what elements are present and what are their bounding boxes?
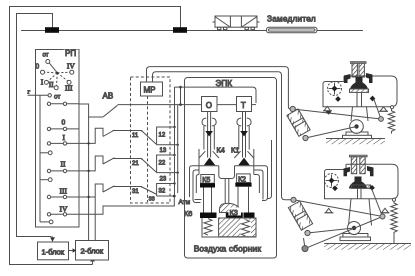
label 13 <box>160 148 167 154</box>
lower mech spring joint circle <box>392 198 395 201</box>
contact K-III blade <box>103 186 115 192</box>
svg-text:МР: МР <box>144 86 156 95</box>
lower mech long link A-C <box>294 200 383 217</box>
wire 23 to bus <box>161 171 179 173</box>
arrow into 1-blok top <box>50 237 55 242</box>
upper mech valve bell <box>350 77 369 92</box>
wire from track contact 2 to block 2 (outer loop) <box>10 7 181 265</box>
upper mech tilted cylinder <box>287 109 310 136</box>
wire T return top <box>175 87 257 103</box>
svg-text:IV: IV <box>60 205 68 214</box>
upper mech long link A-C <box>293 109 381 119</box>
contact group 21 blade <box>142 159 156 172</box>
rotary position circle ot <box>46 60 50 64</box>
valve T seat shelf <box>235 165 254 167</box>
label 23 <box>160 177 167 183</box>
svg-text:III: III <box>65 84 73 93</box>
retarder beam on rail <box>267 27 318 33</box>
svg-text:32: 32 <box>159 189 166 195</box>
svg-text:Воздуха сборник: Воздуха сборник <box>194 244 262 254</box>
lower mech joint C <box>380 214 385 219</box>
track contact shoe 1 <box>45 27 59 33</box>
lower mech joint B <box>305 230 310 235</box>
svg-text:1-блок: 1-блок <box>42 248 65 257</box>
svg-text:от: от <box>54 93 60 100</box>
pipe right hook 3 <box>254 175 260 194</box>
wire from track contact 1 to block 1 (inner loop) <box>17 14 53 237</box>
contact group 31 input wire <box>132 187 142 196</box>
upper mech joint B <box>303 135 308 140</box>
link wire T-return to AV line <box>179 86 182 105</box>
lower mech link B-pivot <box>308 228 355 233</box>
valve seat bar right <box>244 213 255 218</box>
label g <box>28 89 31 96</box>
upper mech dashed circle with cross <box>328 82 342 96</box>
junction dot jog bus b <box>87 142 89 144</box>
valve T coil brackets <box>237 118 251 126</box>
block 1 box <box>38 242 69 260</box>
wire 13 to bus <box>161 144 179 146</box>
arrow block1 to block2 <box>68 248 76 253</box>
upper mech bell stem <box>357 93 362 107</box>
label I row <box>63 133 66 142</box>
left bus terminal circle b <box>40 178 52 182</box>
label Zamedlitel <box>267 14 316 23</box>
svg-text:г: г <box>28 89 31 96</box>
contact K-II blade <box>103 158 115 164</box>
walls K5 to K6 <box>204 188 212 213</box>
contact pair row II <box>47 169 79 172</box>
label Atm <box>179 199 191 206</box>
relay MR box <box>141 82 163 96</box>
rotary position circle IV <box>70 70 74 74</box>
upper mech ground <box>326 139 385 145</box>
svg-text:Т: Т <box>241 101 246 110</box>
junction dot jog bus c <box>87 196 89 198</box>
wire g into RP <box>28 94 49 96</box>
svg-text:К2: К2 <box>238 176 246 183</box>
valve solenoid O box <box>202 97 218 112</box>
contact K-II output wire <box>113 158 142 160</box>
lower mech tilted cylinder <box>288 201 312 230</box>
valve T stem <box>243 112 246 158</box>
left bus terminal circle a <box>40 151 52 155</box>
spring right window <box>241 220 252 237</box>
pipe left hook 3 <box>196 175 199 194</box>
terminal circle on g wire <box>48 94 51 97</box>
contact 32-33 bracket <box>157 184 161 197</box>
svg-text:33: 33 <box>149 196 155 202</box>
valve seat bar K6 <box>200 213 217 219</box>
rotary label ot <box>43 52 49 58</box>
valve O stem <box>208 112 211 158</box>
contact group 21 input wire <box>132 159 142 168</box>
rotary label III <box>65 84 73 93</box>
MR pipe to upper mechanism <box>147 67 291 109</box>
wire 33 to bus <box>157 195 176 198</box>
upper mech pedestal <box>343 132 372 139</box>
rotary label 0 <box>35 61 39 70</box>
labels K4 K1 <box>217 146 240 155</box>
contact K-III jog wire <box>79 184 103 197</box>
upper mech link C-pin <box>374 100 381 120</box>
RP left bus <box>39 95 41 222</box>
bus wire left of EPK a <box>174 87 176 196</box>
label III row <box>60 187 68 196</box>
pipe right hook 2 <box>254 170 263 200</box>
switch AV jog wire <box>79 104 103 117</box>
pipe left hook 2 <box>193 170 199 203</box>
upper mech pin diamond left <box>335 96 341 102</box>
rotary switch arm <box>49 63 58 74</box>
junction dot on AV line <box>179 103 182 106</box>
relay panel RP box <box>36 50 80 228</box>
upper mech joint C <box>379 117 384 122</box>
block 2 box <box>76 241 109 261</box>
svg-text:11: 11 <box>132 133 139 139</box>
svg-text:0: 0 <box>62 118 66 127</box>
lower mech link C-pin <box>372 189 383 217</box>
lower mech valve bell <box>349 177 371 189</box>
valve O coil brackets <box>202 118 216 126</box>
rotary label IV <box>67 61 75 70</box>
valve T housing <box>239 126 249 150</box>
valve K5 box <box>201 175 215 185</box>
lower mech pedestal <box>340 234 371 241</box>
svg-text:13: 13 <box>160 148 167 154</box>
chamber walls bottom <box>202 218 256 237</box>
upper mech pivot circle <box>350 120 364 134</box>
wire 22 to bus <box>161 154 176 156</box>
contact K-I jog wire <box>79 128 103 143</box>
EPK box <box>185 78 277 259</box>
chamber outer wall right <box>253 149 255 175</box>
contact 22-23 bracket <box>157 155 161 173</box>
label K6 <box>184 209 192 218</box>
rotary switch dashed spokes <box>45 72 70 86</box>
contact pair row ot <box>47 102 79 105</box>
piston K3 body hatched <box>219 218 256 237</box>
valve solenoid T box <box>237 97 252 112</box>
valve K2 box <box>237 174 251 184</box>
contact 12-13 bracket <box>157 127 161 145</box>
switch AV blade <box>103 105 118 117</box>
svg-text:II: II <box>49 80 54 89</box>
upper mech cylinder walls <box>351 62 367 77</box>
label ot row <box>54 93 60 100</box>
switch AV output wire to valve O <box>118 104 202 106</box>
wire row IV to bus <box>79 196 174 214</box>
wire T to right riser <box>252 104 257 106</box>
contact pair row I <box>47 142 79 145</box>
left bus terminal circle c <box>40 220 53 224</box>
upper mech clamp right <box>366 73 373 83</box>
piston K3 dome hatched <box>220 203 241 212</box>
contact group 11 input wire <box>132 131 142 140</box>
label RP <box>64 49 79 58</box>
svg-text:21: 21 <box>132 161 139 167</box>
center channel U <box>219 166 235 179</box>
pipe right edge riser <box>267 140 272 199</box>
label 33 <box>149 196 155 202</box>
MR mechanical link dashed <box>147 96 149 202</box>
walls K2 down <box>238 187 249 213</box>
lower mech joint A <box>291 197 296 202</box>
pipe right hook 1 <box>254 166 268 201</box>
svg-text:О: О <box>206 101 212 110</box>
svg-text:31: 31 <box>132 189 139 195</box>
contact K-II jog wire <box>79 156 103 171</box>
lower mech bell stem <box>358 189 362 199</box>
contact K-I blade <box>103 130 115 137</box>
lower mech clamp right <box>367 166 374 176</box>
valve T armature triangle <box>240 131 248 137</box>
atmosphere port symbol <box>195 200 202 203</box>
lower mech pivot circle <box>348 222 361 235</box>
contact pair row IV <box>47 213 79 216</box>
label 22 <box>159 161 166 167</box>
lower retarder mechanism body <box>325 164 399 199</box>
bus wire left of EPK b <box>177 105 179 193</box>
contact K-I output wire <box>113 130 142 132</box>
MR pipe to lower mechanism <box>153 72 291 200</box>
arrow into 2-blok bottom <box>90 257 95 264</box>
lower mech clamp left <box>344 167 351 176</box>
rail line <box>21 30 363 32</box>
dashed enclosure MR relay <box>131 77 171 203</box>
lower mech long lever D-C <box>305 217 383 249</box>
upper retarder mechanism body <box>323 76 397 107</box>
contact group 31 blade <box>142 187 156 194</box>
valve T main plug triangle <box>234 151 254 165</box>
center pipe to K3 <box>225 179 229 204</box>
rotary label II <box>49 80 54 89</box>
wagon <box>213 16 260 30</box>
lower mech spring <box>391 201 397 243</box>
label IV row <box>60 205 68 214</box>
svg-text:Атм: Атм <box>179 199 191 206</box>
svg-text:23: 23 <box>160 177 167 183</box>
label AV <box>103 92 114 101</box>
junction dot jog bus a <box>87 170 89 172</box>
valve O housing <box>204 126 214 150</box>
upper mech spring <box>388 109 394 134</box>
label K3 <box>229 208 242 218</box>
lower mech rod to D <box>304 238 306 249</box>
svg-text:К1: К1 <box>231 146 239 155</box>
lower mech rod end joint D <box>302 246 308 252</box>
track contact shoe 2 <box>173 27 187 33</box>
upper mech spring joint circle <box>390 106 393 109</box>
rotary position circle II <box>54 86 58 90</box>
lower mech cylinder walls <box>350 155 368 173</box>
upper mech pin diamond right <box>370 96 376 102</box>
svg-text:К6: К6 <box>184 209 192 218</box>
spring right <box>242 220 250 237</box>
label 32 <box>159 189 166 195</box>
contact group 11 blade <box>142 131 156 144</box>
svg-text:2-блок: 2-блок <box>81 247 104 256</box>
label EPK <box>216 79 233 88</box>
svg-text:IV: IV <box>67 61 75 70</box>
svg-text:12: 12 <box>159 133 166 139</box>
svg-text:АВ: АВ <box>103 92 114 101</box>
wire 32 to bus <box>161 182 176 184</box>
pipe left hook 1 <box>190 166 200 197</box>
lower mech pin diamond left <box>332 185 338 191</box>
svg-text:Замедлител: Замедлител <box>267 14 316 23</box>
svg-text:III: III <box>60 187 68 196</box>
upper mech support triangle right <box>379 107 388 112</box>
upper mech support triangle left <box>323 106 332 111</box>
rotary position circle I <box>44 80 48 84</box>
wire 12 to bus <box>161 126 176 128</box>
label 12 <box>159 133 166 139</box>
rotary label I <box>41 77 44 86</box>
lower mech ground <box>324 244 411 250</box>
wire O to T <box>217 104 237 106</box>
spring left <box>204 219 212 236</box>
upper mech clamp left <box>344 74 351 83</box>
wire jog bus to block2 <box>94 197 96 241</box>
valve K2 seat bar <box>235 183 251 187</box>
label 0 row <box>62 118 66 127</box>
valve O main plug triangle <box>199 151 219 165</box>
svg-text:РП: РП <box>65 49 76 58</box>
contact pair row III <box>47 195 79 198</box>
upper mech link B-pivot <box>306 127 357 139</box>
upper mech column <box>351 107 368 121</box>
svg-text:22: 22 <box>159 161 166 167</box>
svg-text:К5: К5 <box>202 177 210 184</box>
valve seat bar center <box>226 213 243 219</box>
lower mech column <box>349 199 372 226</box>
rotary position circle III <box>67 80 71 84</box>
valve O armature triangle <box>205 131 213 137</box>
lower mech support triangle right <box>381 208 390 213</box>
lower mech support triangle left <box>325 208 334 213</box>
svg-text:II: II <box>61 160 66 169</box>
svg-text:0: 0 <box>35 61 39 70</box>
valve O seat shelf <box>199 165 219 167</box>
wire AV jog down to block2 <box>88 117 90 240</box>
chamber outer wall left <box>198 149 200 175</box>
rotary position circle 0 <box>41 70 45 74</box>
label II row <box>61 160 66 169</box>
lower mech pin diamond right <box>369 185 375 191</box>
upper mech pin diamond at left support <box>326 109 331 114</box>
upper mech joint A <box>290 106 295 111</box>
valve K5 seat bar <box>200 183 215 187</box>
label vozduha sbornik <box>194 244 262 254</box>
svg-text:К3: К3 <box>230 208 238 217</box>
svg-text:К4: К4 <box>217 146 225 155</box>
contact K-III output wire <box>113 186 142 188</box>
lower mech dashed circle with cross <box>325 174 339 188</box>
svg-text:от: от <box>43 52 49 58</box>
contact pair row 0 <box>47 127 79 130</box>
